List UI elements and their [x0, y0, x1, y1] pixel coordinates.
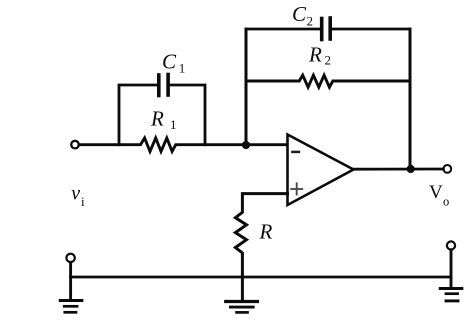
svg-text:1: 1 — [179, 61, 186, 76]
svg-text:R: R — [150, 107, 164, 131]
svg-text:C: C — [162, 50, 177, 74]
svg-text:V: V — [429, 182, 443, 203]
svg-text:o: o — [443, 195, 449, 209]
svg-text:C: C — [292, 2, 307, 26]
svg-text:2: 2 — [307, 13, 314, 28]
svg-text:2: 2 — [325, 52, 332, 67]
svg-text:R: R — [308, 43, 322, 67]
svg-text:i: i — [81, 194, 85, 209]
svg-text:R: R — [259, 220, 273, 244]
svg-text:v: v — [71, 182, 80, 204]
svg-text:1: 1 — [170, 117, 177, 132]
